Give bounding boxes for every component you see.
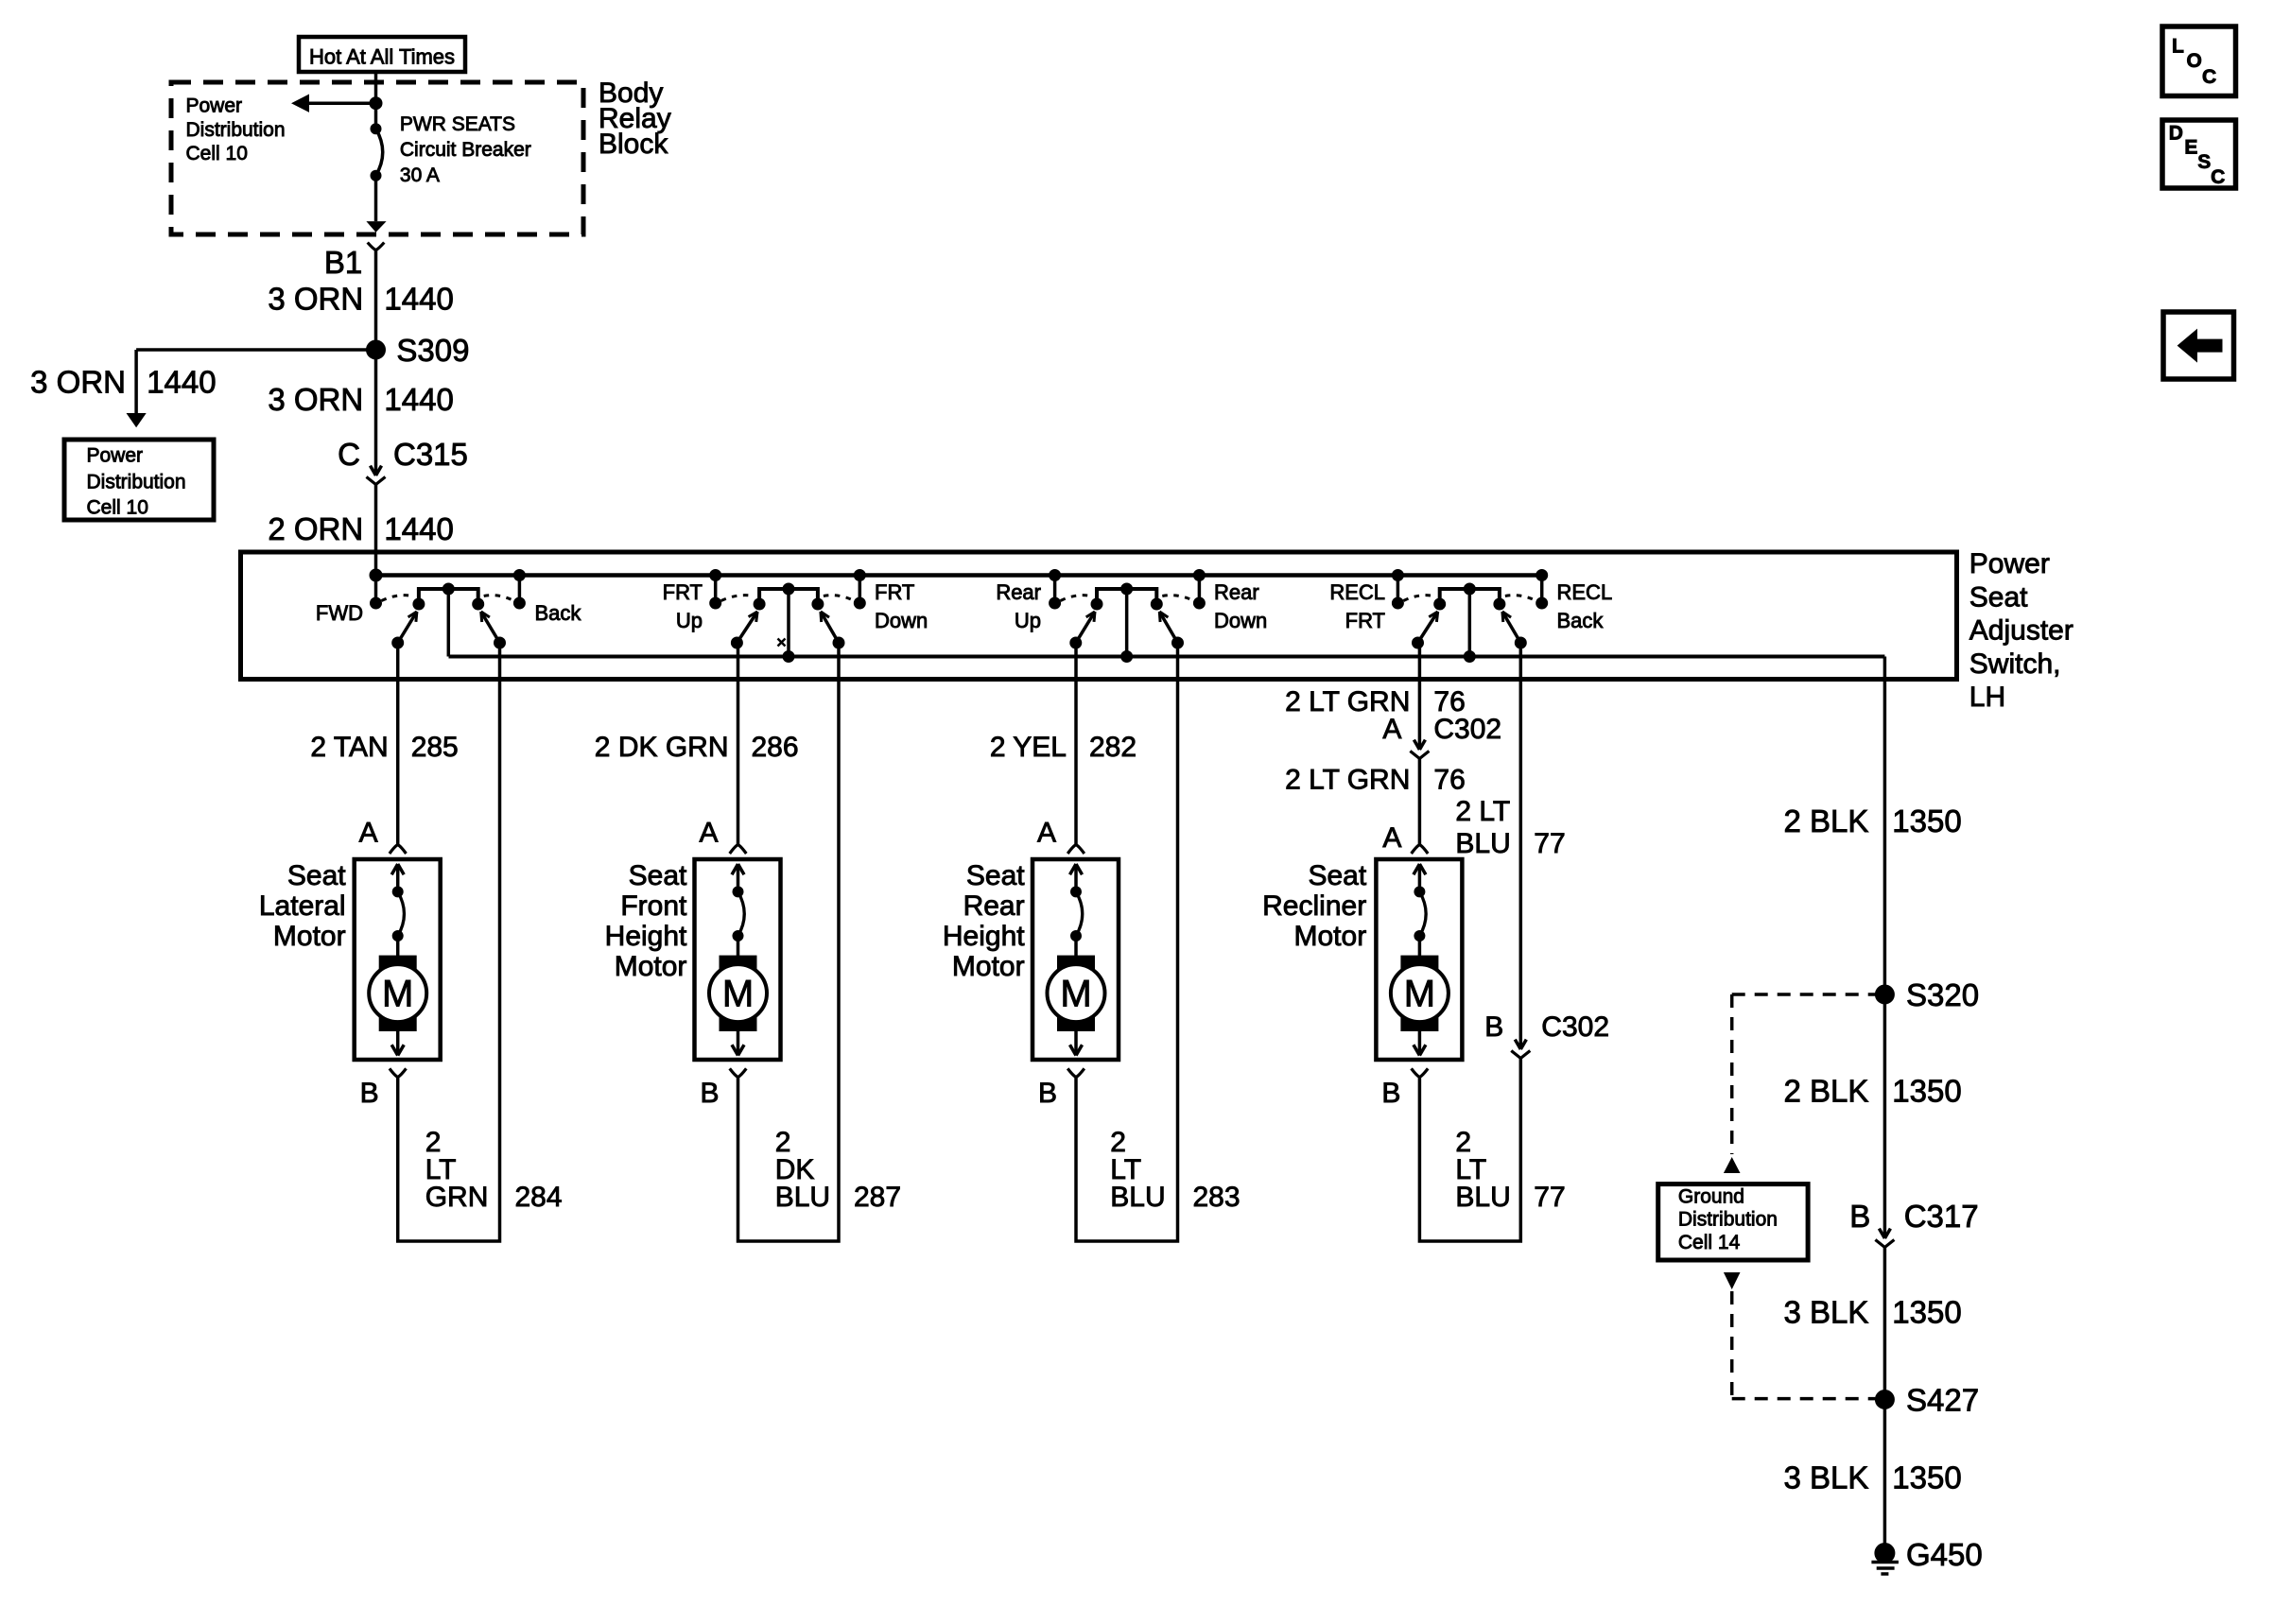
wire 2 LT BLU 283 motor B back to switch bbox=[1076, 643, 1178, 1241]
DESC icon bbox=[2162, 120, 2236, 188]
motor M: Seat Recliner Motor bbox=[1376, 859, 1462, 1060]
connector C317 pin B bbox=[1849, 1199, 1978, 1234]
svg-text:A: A bbox=[1382, 714, 1401, 745]
svg-text:Seat: Seat bbox=[966, 860, 1025, 891]
wire 2 TAN 285 from switch to motor A bbox=[396, 643, 400, 844]
svg-text:M: M bbox=[722, 974, 754, 1015]
svg-text:3 ORN: 3 ORN bbox=[30, 365, 126, 400]
wire 2 DK GRN 286 from switch to motor A bbox=[737, 643, 740, 844]
branch label 3 ORN 1440 bbox=[30, 365, 216, 400]
switch RECL FRT-Back: left arm bbox=[1413, 612, 1438, 648]
svg-text:B: B bbox=[1484, 1011, 1503, 1043]
svg-text:D: D bbox=[2169, 122, 2183, 144]
svg-text:Seat: Seat bbox=[1969, 581, 2028, 613]
svg-text:B1: B1 bbox=[324, 245, 362, 280]
Ground Distribution Cell 14 box bbox=[1658, 1184, 1808, 1260]
svg-text:284: 284 bbox=[515, 1182, 563, 1213]
wire 2 BLK 1350 switch to S320 bbox=[1883, 657, 1887, 995]
svg-text:3 ORN: 3 ORN bbox=[268, 282, 363, 317]
switch Rear Up-Down: right contact bbox=[1193, 570, 1205, 610]
label Rear Down bbox=[1214, 580, 1267, 632]
connector B1 (female half) bbox=[368, 243, 385, 251]
svg-text:Adjuster: Adjuster bbox=[1969, 615, 2073, 647]
svg-text:2 YEL: 2 YEL bbox=[990, 732, 1067, 763]
svg-text:Up: Up bbox=[676, 609, 703, 632]
svg-text:C: C bbox=[2211, 166, 2225, 188]
svg-text:S309: S309 bbox=[396, 333, 469, 368]
Body Relay Block dashed box bbox=[171, 82, 583, 234]
svg-text:76: 76 bbox=[1433, 765, 1465, 796]
wire 2 YEL 282 from switch to motor A bbox=[1074, 643, 1078, 844]
switch FRT Up-Down: wiper bail bbox=[754, 583, 824, 657]
Power Distribution Cell 10 box (lower left) bbox=[64, 440, 214, 520]
svg-text:2 DK GRN: 2 DK GRN bbox=[595, 732, 729, 763]
svg-text:S320: S320 bbox=[1906, 977, 1979, 1012]
wire 2 LT GRN 76 switch to C302 bbox=[1418, 643, 1422, 750]
label FWD bbox=[316, 601, 363, 625]
svg-text:C317: C317 bbox=[1904, 1199, 1979, 1234]
svg-text:Distribution: Distribution bbox=[87, 471, 186, 492]
svg-text:2 ORN: 2 ORN bbox=[268, 511, 363, 546]
svg-text:Recliner: Recliner bbox=[1262, 890, 1366, 922]
svg-text:Seat: Seat bbox=[629, 860, 687, 891]
wire 2 DK BLU 287 motor B back to switch bbox=[738, 643, 840, 1241]
Power Seat Adjuster Switch LH label bbox=[1969, 548, 2073, 713]
svg-text:Switch,: Switch, bbox=[1969, 648, 2061, 680]
switch Rear Up-Down: wiper bail bbox=[1091, 583, 1162, 657]
svg-text:Back: Back bbox=[535, 601, 582, 625]
switch FWD-Back: detent dashes bbox=[382, 596, 413, 601]
arrow to Power Distribution Cell 10 (left) bbox=[291, 95, 376, 112]
junction on output bus bbox=[1121, 651, 1133, 663]
Seat Rear Height Motor label bbox=[943, 860, 1025, 982]
svg-text:BLU: BLU bbox=[1455, 828, 1510, 859]
svg-text:30 A: 30 A bbox=[400, 164, 440, 186]
switch FWD-Back: right arm bbox=[481, 612, 506, 648]
svg-text:B: B bbox=[1849, 1199, 1870, 1234]
dashed link Ground Distribution Cell 14 to S427 bbox=[1724, 1272, 1741, 1289]
svg-text:Down: Down bbox=[875, 609, 928, 632]
svg-text:B: B bbox=[1381, 1078, 1400, 1109]
wire from Hot At All Times into relay block bbox=[374, 72, 378, 129]
Hot At All Times box bbox=[299, 37, 465, 72]
wire C315 to switch, 2 ORN 1440 bbox=[374, 485, 378, 576]
svg-text:B: B bbox=[360, 1078, 379, 1109]
svg-text:FRT: FRT bbox=[875, 580, 914, 604]
wire 2 LT GRN 76 C302 to motor A bbox=[1418, 759, 1422, 845]
svg-text:B: B bbox=[1038, 1078, 1057, 1109]
dashed link S320 to Ground Distribution Cell 14 bbox=[1732, 993, 1876, 996]
switch FWD-Back: wiper bail bbox=[413, 583, 484, 657]
svg-text:GRN: GRN bbox=[425, 1182, 489, 1213]
splice S427 bbox=[1875, 1391, 1894, 1409]
svg-text:Cell 14: Cell 14 bbox=[1678, 1232, 1741, 1253]
svg-text:A: A bbox=[1037, 818, 1056, 849]
connector at motor B bbox=[730, 1068, 747, 1077]
svg-text:C302: C302 bbox=[1433, 714, 1501, 745]
label 3 ORN 1440 bbox=[268, 282, 453, 317]
svg-text:Cell 10: Cell 10 bbox=[87, 496, 148, 518]
splice S309 bbox=[367, 340, 386, 359]
connector at motor B bbox=[1412, 1068, 1429, 1077]
svg-text:FRT: FRT bbox=[1345, 609, 1385, 632]
svg-text:1350: 1350 bbox=[1892, 1295, 1961, 1330]
svg-text:C: C bbox=[2202, 66, 2216, 88]
svg-text:2 LT: 2 LT bbox=[1455, 796, 1510, 827]
svg-text:Power: Power bbox=[1969, 548, 2050, 579]
switch output bus to ground bbox=[449, 655, 1885, 659]
switch FRT Up-Down: left contact bbox=[710, 570, 721, 610]
Power Seat Adjuster Switch LH box bbox=[241, 552, 1957, 680]
svg-text:Power: Power bbox=[87, 445, 144, 467]
svg-text:Distribution: Distribution bbox=[186, 119, 286, 141]
back arrow icon bbox=[2163, 312, 2234, 379]
wire 3 BLK 1350 S427 to G450 bbox=[1883, 1400, 1887, 1546]
svg-text:285: 285 bbox=[411, 732, 459, 763]
switch Rear Up-Down: right arm bbox=[1159, 612, 1183, 648]
svg-text:287: 287 bbox=[854, 1182, 901, 1213]
svg-text:LH: LH bbox=[1969, 682, 2005, 713]
svg-text:1440: 1440 bbox=[384, 282, 453, 317]
svg-text:Down: Down bbox=[1214, 609, 1267, 632]
svg-text:Cell 10: Cell 10 bbox=[186, 143, 248, 164]
switch FRT Up-Down: right contact bbox=[854, 570, 865, 610]
switch FWD-Back: left arm bbox=[392, 612, 417, 648]
svg-text:2 BLK: 2 BLK bbox=[1783, 1074, 1868, 1109]
svg-text:RECL: RECL bbox=[1557, 580, 1613, 604]
svg-text:Power: Power bbox=[186, 95, 243, 117]
svg-text:Seat: Seat bbox=[1308, 860, 1366, 891]
motor M: Seat Front Height Motor bbox=[695, 859, 781, 1060]
svg-text:3 ORN: 3 ORN bbox=[268, 382, 363, 417]
svg-text:A: A bbox=[359, 818, 378, 849]
circuit breaker PWR SEATS 30 A bbox=[371, 124, 383, 181]
label RECL FRT bbox=[1329, 580, 1385, 632]
svg-text:A: A bbox=[1382, 822, 1401, 854]
svg-text:Distribution: Distribution bbox=[1678, 1208, 1778, 1230]
svg-text:M: M bbox=[382, 974, 413, 1015]
svg-text:C: C bbox=[338, 437, 360, 472]
svg-text:Height: Height bbox=[943, 921, 1025, 952]
branch wire to Power Distribution Cell 10 bbox=[127, 350, 376, 427]
svg-text:Motor: Motor bbox=[615, 951, 687, 982]
svg-text:A: A bbox=[699, 818, 718, 849]
svg-text:BLU: BLU bbox=[775, 1182, 830, 1213]
svg-text:Rear: Rear bbox=[1214, 580, 1259, 604]
label 3 ORN 1440 bbox=[268, 382, 453, 417]
svg-text:3 BLK: 3 BLK bbox=[1783, 1295, 1868, 1330]
switch FRT Up-Down: detent dashes bbox=[721, 596, 754, 601]
svg-text:Motor: Motor bbox=[1294, 921, 1367, 952]
svg-text:G450: G450 bbox=[1906, 1537, 1983, 1572]
wire S309 to C315 bbox=[374, 350, 378, 475]
switch FRT Up-Down: left arm bbox=[731, 612, 757, 648]
svg-text:BLU: BLU bbox=[1455, 1182, 1510, 1213]
svg-text:1350: 1350 bbox=[1892, 1460, 1961, 1495]
motor M: Seat Lateral Motor bbox=[355, 859, 441, 1060]
stray mark bbox=[778, 639, 786, 647]
Power Distribution Cell 10 label (in relay block) bbox=[186, 95, 286, 164]
switch Rear Up-Down: detent dashes bbox=[1061, 596, 1091, 601]
Seat Recliner Motor label bbox=[1262, 860, 1367, 952]
splice S320 bbox=[1875, 985, 1894, 1004]
switch RECL FRT-Back: detent dashes bbox=[1403, 596, 1433, 601]
label FRT Down bbox=[875, 580, 928, 632]
ground G450 bbox=[1871, 1544, 1899, 1575]
svg-text:1350: 1350 bbox=[1892, 1074, 1961, 1109]
svg-text:283: 283 bbox=[1193, 1182, 1241, 1213]
svg-text:1350: 1350 bbox=[1892, 803, 1961, 838]
svg-text:1440: 1440 bbox=[384, 382, 453, 417]
PWR SEATS Circuit Breaker 30 A label bbox=[400, 113, 531, 186]
connector at motor A bbox=[730, 845, 747, 854]
switch Rear Up-Down: left arm bbox=[1070, 612, 1095, 648]
svg-text:1440: 1440 bbox=[147, 365, 216, 400]
wire 2 BLK 1350 S320 to C317 bbox=[1883, 994, 1887, 1238]
svg-text:2 TAN: 2 TAN bbox=[310, 732, 388, 763]
svg-text:Front: Front bbox=[620, 890, 687, 922]
svg-text:Height: Height bbox=[605, 921, 687, 952]
wire 2 LT BLU 77 switch to C302 B bbox=[1519, 643, 1523, 1049]
svg-text:Rear: Rear bbox=[996, 580, 1041, 604]
switch RECL FRT-Back: right arm bbox=[1502, 612, 1526, 648]
svg-text:286: 286 bbox=[752, 732, 799, 763]
svg-text:BLU: BLU bbox=[1110, 1182, 1165, 1213]
svg-text:PWR SEATS: PWR SEATS bbox=[400, 113, 515, 135]
svg-text:Seat: Seat bbox=[287, 860, 346, 891]
svg-text:FWD: FWD bbox=[316, 601, 363, 625]
junction on output bus bbox=[783, 651, 794, 663]
svg-text:Motor: Motor bbox=[952, 951, 1025, 982]
svg-text:B: B bbox=[700, 1078, 719, 1109]
svg-text:2 LT GRN: 2 LT GRN bbox=[1285, 765, 1410, 796]
svg-text:Block: Block bbox=[599, 129, 668, 160]
svg-text:FRT: FRT bbox=[663, 580, 703, 604]
switch FWD-Back: right contact bbox=[513, 570, 525, 610]
svg-text:2 BLK: 2 BLK bbox=[1783, 803, 1868, 838]
svg-text:Ground: Ground bbox=[1678, 1186, 1744, 1208]
junction to Power Distribution feed bbox=[370, 97, 382, 110]
motor M: Seat Rear Height Motor bbox=[1032, 859, 1119, 1060]
connector at motor B bbox=[390, 1068, 407, 1077]
label FRT Up bbox=[663, 580, 703, 632]
svg-text:77: 77 bbox=[1534, 828, 1565, 859]
svg-text:1440: 1440 bbox=[384, 511, 453, 546]
switch FWD-Back: left contact bbox=[371, 570, 382, 610]
svg-text:C302: C302 bbox=[1541, 1011, 1609, 1043]
svg-text:RECL: RECL bbox=[1329, 580, 1385, 604]
connector at motor A bbox=[1067, 845, 1084, 854]
wire B1 to S309, 3 ORN 1440 bbox=[374, 251, 378, 350]
svg-text:C315: C315 bbox=[393, 437, 468, 472]
svg-text:282: 282 bbox=[1089, 732, 1136, 763]
Body Relay Block label bbox=[599, 78, 671, 160]
label Rear Up bbox=[996, 580, 1041, 632]
label RECL Back bbox=[1557, 580, 1613, 632]
svg-text:Circuit Breaker: Circuit Breaker bbox=[400, 139, 531, 161]
svg-text:Motor: Motor bbox=[273, 921, 346, 952]
switch RECL FRT-Back: wiper bail bbox=[1434, 583, 1505, 657]
svg-text:M: M bbox=[1060, 974, 1091, 1015]
LOC icon bbox=[2162, 26, 2236, 96]
Seat Front Height Motor label bbox=[605, 860, 687, 982]
connector at motor A bbox=[390, 845, 407, 854]
wire 2 LT BLU 77 motor B down bbox=[1419, 1058, 1520, 1241]
connector C315 pin C bbox=[376, 466, 382, 475]
connector at motor B bbox=[1067, 1068, 1084, 1077]
svg-text:Up: Up bbox=[1015, 609, 1041, 632]
svg-text:Hot At All Times: Hot At All Times bbox=[309, 45, 455, 69]
wire 3 BLK 1350 C317 to S427 bbox=[1883, 1248, 1887, 1400]
svg-text:S427: S427 bbox=[1906, 1383, 1979, 1418]
svg-text:77: 77 bbox=[1534, 1182, 1565, 1213]
svg-text:Lateral: Lateral bbox=[259, 890, 346, 922]
svg-text:Back: Back bbox=[1557, 609, 1605, 632]
svg-text:Rear: Rear bbox=[963, 890, 1025, 922]
switch FRT Up-Down: right arm bbox=[821, 612, 844, 648]
switch feed bus bbox=[376, 573, 1542, 578]
svg-text:E: E bbox=[2184, 137, 2197, 159]
svg-text:L: L bbox=[2172, 35, 2184, 57]
svg-text:M: M bbox=[1404, 974, 1435, 1015]
svg-text:3 BLK: 3 BLK bbox=[1783, 1460, 1868, 1495]
svg-text:O: O bbox=[2187, 50, 2202, 72]
svg-text:S: S bbox=[2197, 151, 2211, 173]
Seat Lateral Motor label bbox=[259, 860, 346, 952]
connector at motor A bbox=[1412, 845, 1429, 854]
switch Rear Up-Down: left contact bbox=[1050, 570, 1061, 610]
switch RECL FRT-Back: left contact bbox=[1392, 570, 1403, 610]
wire breaker to block edge with arrowhead bbox=[366, 176, 386, 233]
switch RECL FRT-Back: right contact bbox=[1536, 570, 1548, 610]
junction on output bus bbox=[1464, 651, 1475, 663]
wire 2 LT GRN 284 motor B back to switch bbox=[398, 643, 500, 1241]
label Back bbox=[535, 601, 582, 625]
